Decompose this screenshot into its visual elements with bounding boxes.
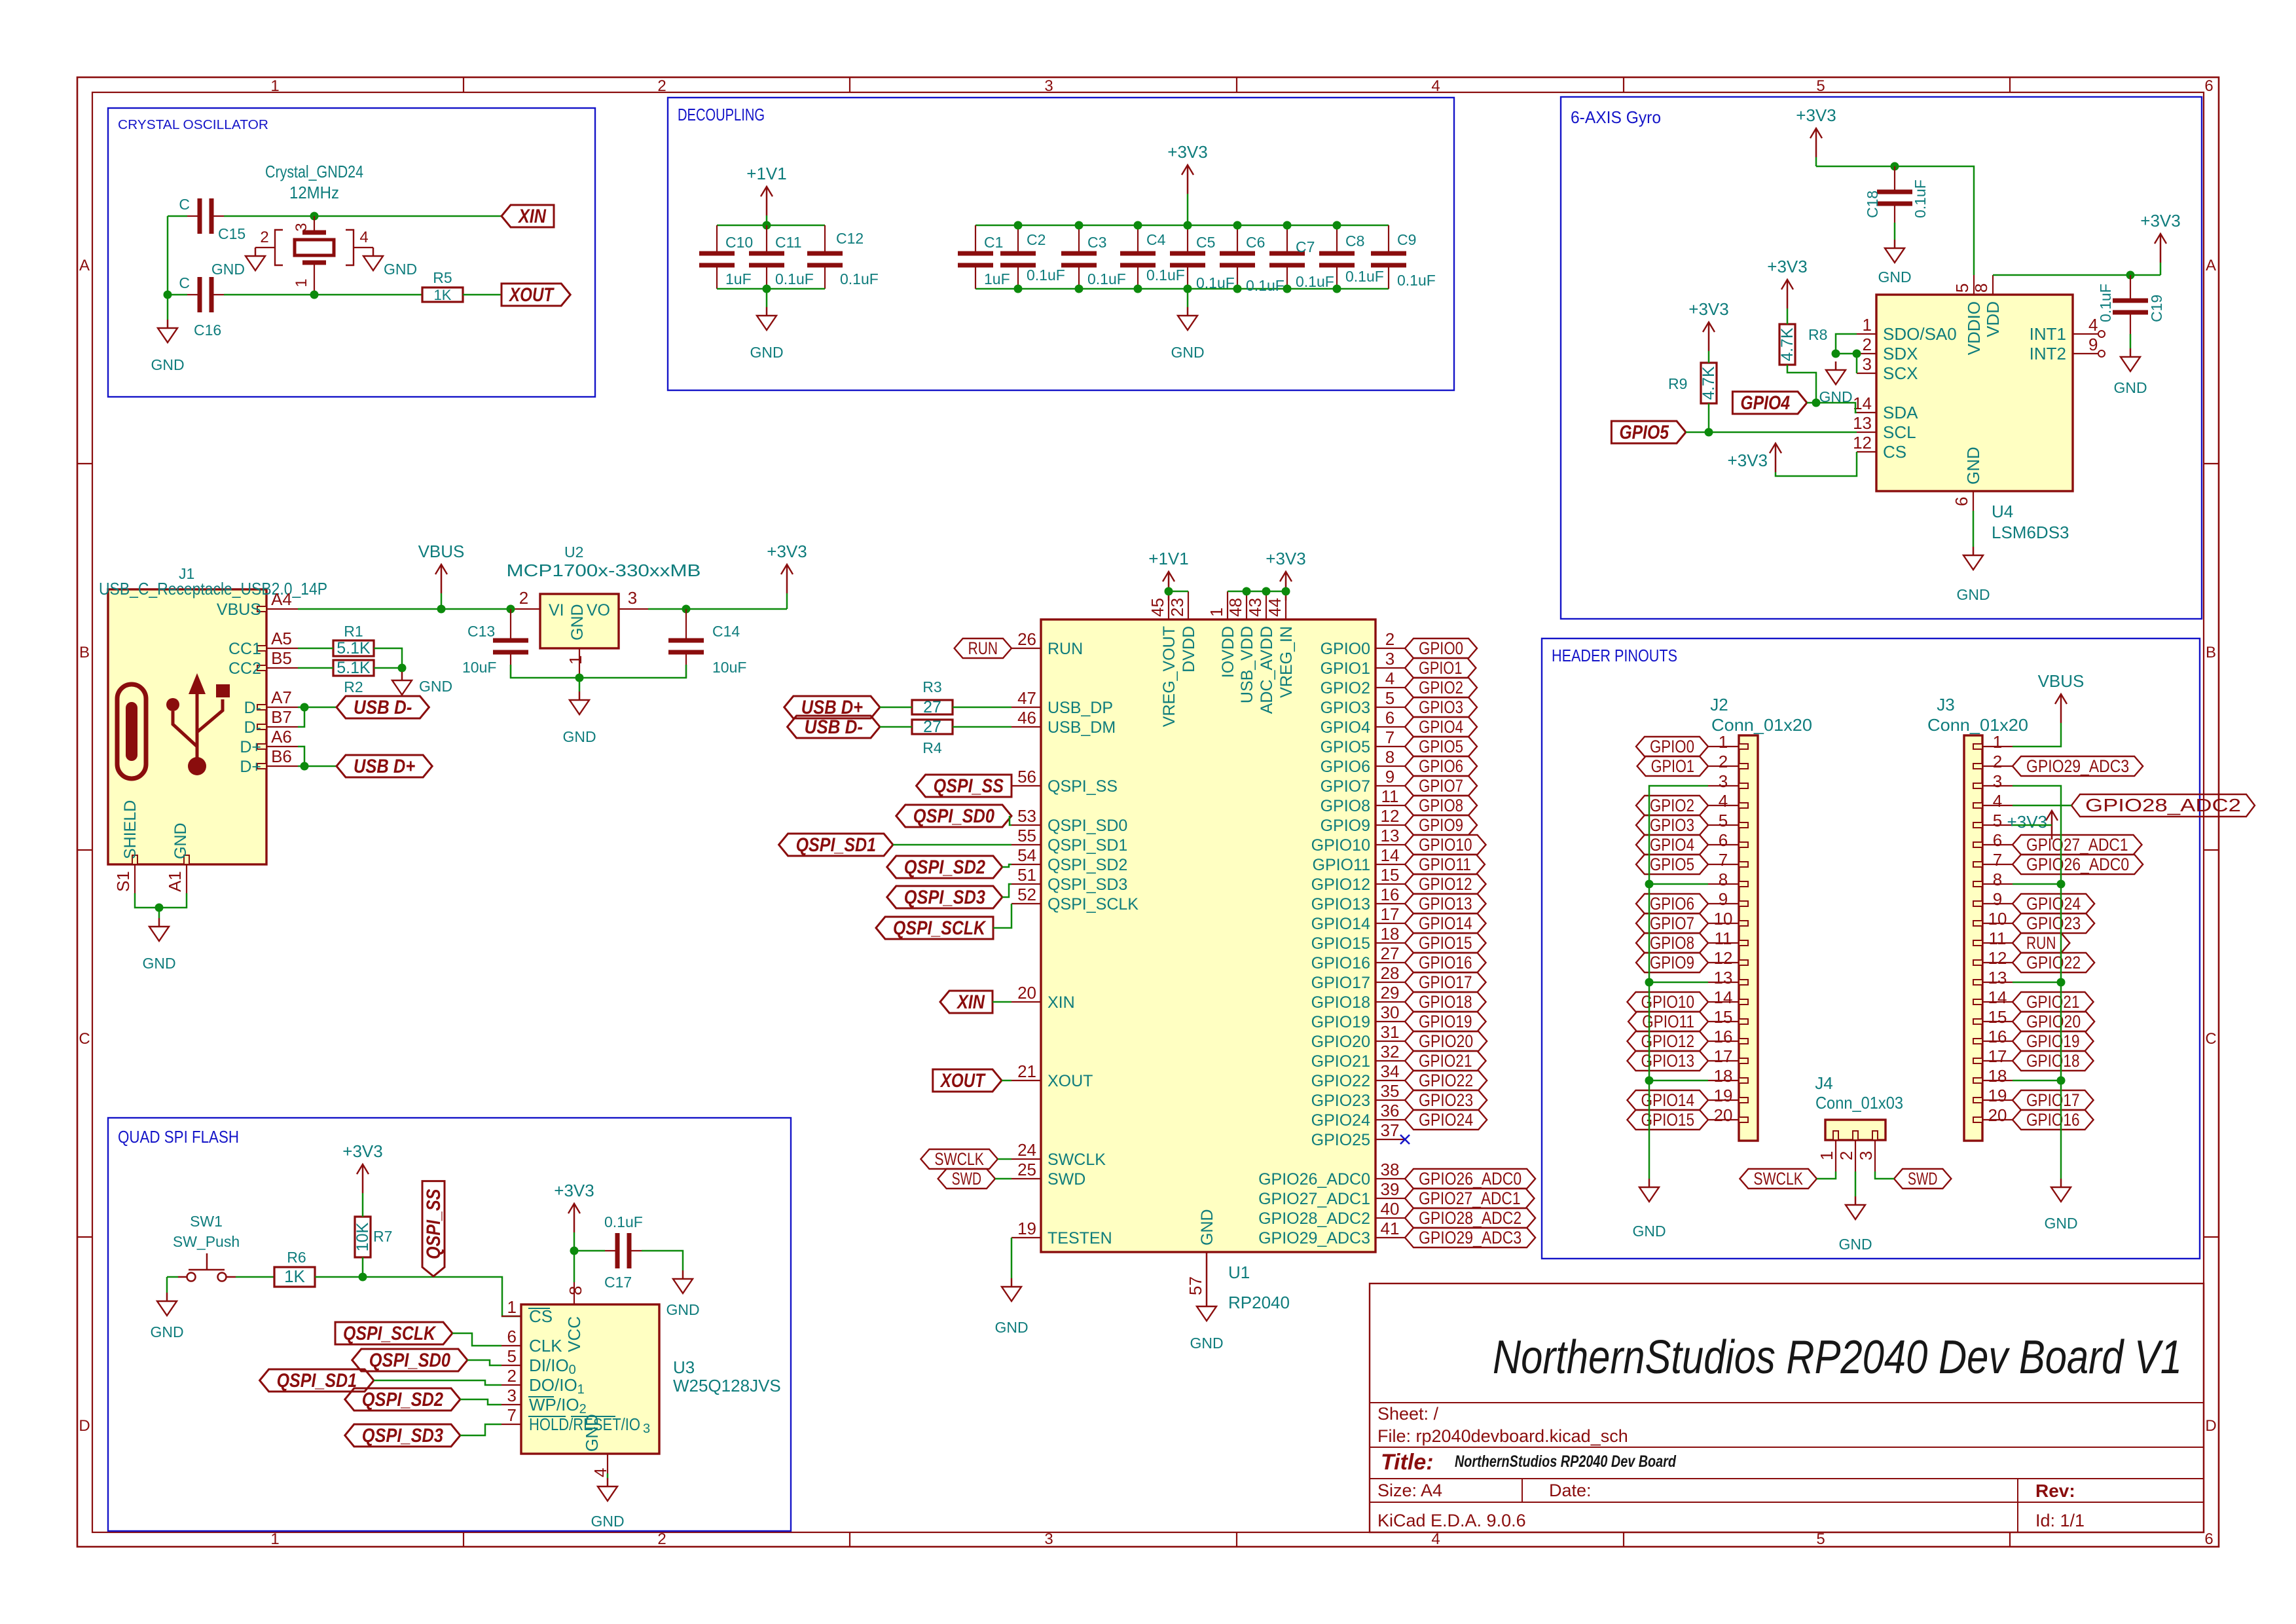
svg-text:XIN: XIN <box>1048 993 1075 1012</box>
net tag GPIO2 at J2 <box>1636 796 1708 815</box>
svg-text:GPIO29_ADC3: GPIO29_ADC3 <box>1419 1228 1522 1247</box>
global label USB D- at U1 <box>788 716 880 738</box>
svg-text:QSPI_SD0: QSPI_SD0 <box>1048 817 1127 835</box>
svg-text:GPIO1: GPIO1 <box>1419 658 1462 678</box>
svg-text:5: 5 <box>1719 811 1728 830</box>
svg-text:A1: A1 <box>165 871 185 892</box>
wire +1V1 pins <box>1169 591 1188 593</box>
net tag GPIO4 <box>1405 717 1477 737</box>
svg-text:GPIO21: GPIO21 <box>1419 1051 1472 1071</box>
svg-text:2: 2 <box>519 588 528 608</box>
svg-text:USB_DM: USB_DM <box>1048 718 1116 737</box>
svg-text:CC1: CC1 <box>228 640 261 658</box>
svg-text:WP/IO: WP/IO <box>529 1395 579 1414</box>
svg-text:GND: GND <box>1198 1209 1216 1246</box>
svg-text:C4: C4 <box>1146 231 1166 248</box>
svg-text:9: 9 <box>2088 335 2098 354</box>
svg-text:SWD: SWD <box>952 1169 981 1189</box>
svg-text:0.1uF: 0.1uF <box>775 270 814 287</box>
node J3 pin 13 junction <box>2057 978 2066 987</box>
svg-text:GPIO5: GPIO5 <box>1419 737 1463 756</box>
svg-text:QSPI_SD3: QSPI_SD3 <box>904 887 985 908</box>
svg-text:C9: C9 <box>1397 231 1416 248</box>
svg-text:Sheet: /: Sheet: / <box>1377 1404 1439 1424</box>
svg-text:2: 2 <box>657 77 666 95</box>
svg-text:0.1uF: 0.1uF <box>1397 272 1436 289</box>
power +3V3 gyro right <box>2160 263 2162 275</box>
svg-text:VI: VI <box>549 601 564 619</box>
svg-text:GND: GND <box>666 1301 699 1318</box>
capacitor C6 <box>1237 225 1238 253</box>
svg-text:GPIO18: GPIO18 <box>1419 992 1472 1012</box>
wire R1 R2 to gnd <box>374 648 402 672</box>
svg-text:GND: GND <box>582 1414 602 1452</box>
IC U1 RP2040 body <box>1041 619 1376 1252</box>
svg-text:19: 19 <box>1714 1086 1733 1105</box>
svg-text:Rev:: Rev: <box>2035 1481 2075 1501</box>
svg-text:1: 1 <box>1817 1151 1836 1160</box>
node D+ junction <box>301 762 309 771</box>
resistor R1 5.1K <box>333 640 374 656</box>
ground below C5 <box>1187 289 1189 307</box>
svg-text:4: 4 <box>1719 791 1728 811</box>
node J3 pin 8 junction <box>2057 880 2066 889</box>
wire QSPI_SD2 <box>1002 864 1011 867</box>
svg-text:GPIO25: GPIO25 <box>1311 1131 1370 1149</box>
wire J2 pin 18 gnd <box>1649 1080 1708 1082</box>
svg-text:24: 24 <box>1017 1140 1036 1160</box>
net tag GPIO5 <box>1405 737 1477 756</box>
svg-text:QSPI_SD2: QSPI_SD2 <box>362 1389 443 1411</box>
svg-text:GND: GND <box>1632 1223 1666 1240</box>
net tag GPIO13 <box>1405 894 1486 913</box>
wire J3 pin4 to GPIO28_ADC2 <box>2013 805 2071 807</box>
net tag GPIO16 at J3 <box>2013 1110 2094 1130</box>
svg-text:GPIO2: GPIO2 <box>1650 796 1694 815</box>
svg-text:MCP1700x-330xxMB: MCP1700x-330xxMB <box>507 561 701 580</box>
svg-text:8: 8 <box>1385 747 1394 767</box>
node D- junction <box>301 703 309 712</box>
svg-text:NorthernStudios RP2040 Dev Boa: NorthernStudios RP2040 Dev Board <box>1455 1452 1677 1471</box>
svg-text:CRYSTAL OSCILLATOR: CRYSTAL OSCILLATOR <box>118 118 268 132</box>
wire +3V3 pins <box>1228 591 1286 593</box>
crystal pin2 wire and ground <box>255 247 275 248</box>
wire R6 to CS net <box>315 1277 521 1316</box>
svg-text:52: 52 <box>1017 885 1036 904</box>
node R9 SCL junction <box>1705 428 1713 437</box>
node GPIO4 junction <box>1812 399 1821 407</box>
svg-text:1: 1 <box>507 1297 517 1317</box>
svg-text:3: 3 <box>1856 1151 1876 1160</box>
J3 pins <box>1973 744 1982 749</box>
svg-text:0.1uF: 0.1uF <box>1087 270 1126 287</box>
svg-text:GPIO8: GPIO8 <box>1419 796 1463 815</box>
svg-text:GPIO13: GPIO13 <box>1311 895 1370 913</box>
global label USB D+ at U1 <box>784 696 880 718</box>
wire QSPI_SD1 to DO <box>374 1380 501 1385</box>
power +3V3 above R8 <box>1787 308 1789 324</box>
svg-text:QSPI_SD3: QSPI_SD3 <box>1048 876 1127 894</box>
svg-text:+3V3: +3V3 <box>1167 142 1207 162</box>
svg-text:A6: A6 <box>271 727 292 747</box>
ground below J1 <box>158 918 160 927</box>
svg-text:QSPI_SD1: QSPI_SD1 <box>1048 836 1127 855</box>
svg-text:GPIO23: GPIO23 <box>2026 913 2081 933</box>
wire J2 ground bus <box>1649 786 1708 1179</box>
svg-text:1: 1 <box>270 77 279 95</box>
node VCC junction <box>570 1247 579 1255</box>
svg-text:GPIO11: GPIO11 <box>1419 855 1471 874</box>
U1 bottom pin GND 57 <box>1206 1252 1208 1298</box>
svg-text:GND: GND <box>1190 1335 1223 1352</box>
svg-text:5: 5 <box>507 1346 517 1366</box>
svg-text:13: 13 <box>1714 968 1733 987</box>
wire shield to gnd <box>135 893 187 908</box>
svg-text:11: 11 <box>1381 786 1399 806</box>
wire SWD <box>995 1178 1011 1180</box>
svg-text:VREG_IN: VREG_IN <box>1277 626 1296 698</box>
svg-text:GND: GND <box>591 1513 624 1530</box>
svg-text:GPIO19: GPIO19 <box>1419 1012 1472 1031</box>
wire J3 pin1 to VBUS <box>2013 723 2061 747</box>
svg-text:GPIO19: GPIO19 <box>1311 1013 1370 1031</box>
capacitor C14 10uF <box>685 609 687 640</box>
net tag GPIO24 at J3 <box>2013 894 2094 913</box>
svg-text:0.1uF: 0.1uF <box>2097 284 2114 322</box>
svg-text:20: 20 <box>1714 1105 1733 1125</box>
capacitor C18 <box>1894 166 1895 192</box>
svg-text:+1V1: +1V1 <box>1148 549 1188 568</box>
power +3V3 at J3 pin5 <box>2051 811 2053 840</box>
svg-text:C14: C14 <box>712 623 740 640</box>
svg-text:15: 15 <box>1988 1007 2007 1027</box>
capacitor C10 <box>716 225 718 253</box>
svg-text:GND: GND <box>1956 586 1990 603</box>
svg-text:GPIO20: GPIO20 <box>1419 1031 1473 1051</box>
node C4 top junction <box>1134 221 1142 230</box>
USB icon <box>117 684 146 779</box>
svg-text:D: D <box>2205 1417 2216 1435</box>
node C5 top junction <box>1184 221 1192 230</box>
svg-text:VCC: VCC <box>564 1316 584 1352</box>
svg-text:SW1: SW1 <box>190 1213 223 1230</box>
ground below R1 R2 <box>401 672 403 680</box>
svg-text:VO: VO <box>587 601 610 619</box>
wire QSPI_SCLK to CLK <box>452 1333 501 1346</box>
net tag GPIO2 <box>1405 678 1477 697</box>
node left GND junction <box>763 285 771 293</box>
svg-text:SCX: SCX <box>1883 363 1918 383</box>
svg-text:10uF: 10uF <box>712 659 746 676</box>
crystal pin4 wire and ground <box>354 247 373 248</box>
svg-text:35: 35 <box>1381 1081 1400 1101</box>
net tag GPIO16 <box>1405 953 1486 972</box>
svg-text:J3: J3 <box>1937 695 1954 714</box>
svg-text:+3V3: +3V3 <box>2007 812 2047 832</box>
svg-text:SDX: SDX <box>1883 344 1918 363</box>
node crystal XIN junction <box>310 212 319 221</box>
net tag GPIO21 <box>1405 1051 1486 1071</box>
svg-text:GPIO14: GPIO14 <box>1311 915 1370 933</box>
ground below J4 <box>1855 1196 1857 1205</box>
wire J4 pin2 gnd <box>1855 1172 1857 1196</box>
svg-text:XIN: XIN <box>956 991 985 1013</box>
U3 GND pin 4 <box>607 1454 608 1473</box>
section box DECOUPLING <box>668 98 1454 390</box>
svg-text:U2: U2 <box>564 544 583 561</box>
svg-text:0.1uF: 0.1uF <box>1345 268 1384 285</box>
svg-text:GPIO9: GPIO9 <box>1321 817 1370 835</box>
svg-text:12: 12 <box>1714 948 1733 968</box>
svg-text:GPIO9: GPIO9 <box>1419 815 1463 835</box>
wire QSPI_SD3 <box>1002 884 1011 897</box>
svg-text:GPIO3: GPIO3 <box>1419 697 1463 717</box>
wire D- pair <box>298 707 304 727</box>
node C2 bottom junction <box>1014 285 1023 293</box>
svg-text:CS: CS <box>529 1306 553 1326</box>
svg-text:12: 12 <box>1853 433 1872 452</box>
net tag GPIO22 <box>1405 1071 1487 1090</box>
svg-text:C3: C3 <box>1087 234 1106 251</box>
svg-text:GPIO2: GPIO2 <box>1419 678 1463 697</box>
svg-text:14: 14 <box>1714 987 1733 1007</box>
capacitor C11 <box>766 225 767 253</box>
svg-text:+3V3: +3V3 <box>342 1141 382 1161</box>
U2 pin 1 <box>579 648 580 678</box>
svg-text:B: B <box>79 644 90 661</box>
J2 pins <box>1739 744 1748 749</box>
node C3 bottom junction <box>1075 285 1084 293</box>
svg-text:37: 37 <box>1381 1120 1400 1140</box>
decoupling left top bus wire <box>717 225 825 227</box>
svg-text:U3: U3 <box>673 1357 695 1377</box>
node USB_VDD junctions <box>1243 587 1251 596</box>
svg-text:SHIELD: SHIELD <box>121 800 139 859</box>
svg-text:C13: C13 <box>467 623 495 640</box>
svg-text:GPIO17: GPIO17 <box>1419 972 1472 992</box>
svg-text:GND: GND <box>2044 1215 2077 1232</box>
global label XOUT <box>501 284 570 306</box>
svg-text:0.1uF: 0.1uF <box>604 1213 643 1230</box>
wire VDD to +3V3 right <box>1993 274 2160 276</box>
svg-text:57: 57 <box>1186 1276 1205 1295</box>
node C14 junction <box>682 605 691 614</box>
svg-text:QSPI_SD1: QSPI_SD1 <box>796 834 876 856</box>
svg-text:XIN: XIN <box>517 206 547 227</box>
svg-text:DVDD: DVDD <box>1180 626 1198 673</box>
capacitor C2 <box>1017 225 1019 253</box>
svg-text:B6: B6 <box>271 747 292 766</box>
global label QSPI_SS <box>917 775 1011 797</box>
svg-text:GPIO6: GPIO6 <box>1419 756 1463 776</box>
svg-text:C: C <box>79 1030 90 1048</box>
node shield junction <box>155 904 164 912</box>
svg-text:C8: C8 <box>1345 232 1364 249</box>
svg-text:+3V3: +3V3 <box>2140 211 2180 231</box>
node C2 top junction <box>1014 221 1023 230</box>
svg-text:12MHz: 12MHz <box>289 183 339 202</box>
svg-text:GPIO5: GPIO5 <box>1321 738 1370 756</box>
svg-text:R3: R3 <box>922 678 941 695</box>
svg-text:IOVDD: IOVDD <box>1219 626 1237 678</box>
capacitor C5 <box>1187 225 1188 253</box>
net tag GPIO18 <box>1405 992 1486 1012</box>
svg-text:INT2: INT2 <box>2030 344 2066 363</box>
global label QSPI_SCLK <box>876 917 993 939</box>
net tag GPIO8 <box>1405 796 1477 815</box>
resistor R3 27 <box>912 700 953 714</box>
svg-text:0.1uF: 0.1uF <box>840 270 879 287</box>
wire TESTEN to gnd <box>1011 1238 1013 1278</box>
capacitor C3 <box>1078 225 1080 253</box>
svg-text:GPIO15: GPIO15 <box>1419 933 1472 953</box>
wire R4 wires <box>880 726 912 728</box>
wire C15 left <box>168 215 187 217</box>
power +3V3 at CS <box>1775 443 1777 472</box>
svg-text:A: A <box>79 257 90 274</box>
U2 pin 2 <box>511 608 540 610</box>
svg-text:C5: C5 <box>1196 234 1215 251</box>
power +3V3 above R7 <box>362 1193 364 1217</box>
svg-text:GND: GND <box>419 678 452 695</box>
net tag GPIO9 at J2 <box>1636 953 1708 972</box>
svg-text:18: 18 <box>1381 924 1400 944</box>
node R2 junction <box>398 664 407 673</box>
node VBUS junction <box>437 605 446 614</box>
svg-text:3: 3 <box>1719 771 1728 791</box>
svg-text:6: 6 <box>2204 77 2213 95</box>
svg-text:SCL: SCL <box>1883 422 1916 442</box>
svg-text:XOUT: XOUT <box>939 1070 986 1092</box>
svg-text:GPIO21: GPIO21 <box>1311 1052 1370 1071</box>
svg-text:VDDIO: VDDIO <box>1964 301 1984 355</box>
svg-text:43: 43 <box>1245 598 1265 617</box>
svg-text:54: 54 <box>1017 845 1036 865</box>
svg-text:USB_VDD: USB_VDD <box>1238 626 1256 703</box>
svg-text:D+: D+ <box>240 758 261 776</box>
svg-text:GPIO26_ADC0: GPIO26_ADC0 <box>1258 1170 1370 1189</box>
svg-text:GPIO6: GPIO6 <box>1650 894 1694 913</box>
wire C16 to R5 <box>224 294 422 296</box>
net tag GPIO1 <box>1405 658 1476 678</box>
svg-text:GPIO29_ADC3: GPIO29_ADC3 <box>2026 756 2129 776</box>
svg-text:1uF: 1uF <box>725 270 752 287</box>
net tag GPIO11 <box>1405 855 1485 874</box>
section box CRYSTAL OSCILLATOR <box>108 108 595 397</box>
net tag RUN at U1 <box>955 638 1011 658</box>
net tag GPIO27_ADC1 at J3 <box>2013 835 2142 855</box>
svg-text:13: 13 <box>1988 968 2007 987</box>
svg-text:GPIO24: GPIO24 <box>1311 1111 1370 1130</box>
capacitor C16 <box>187 294 200 295</box>
node C8 top junction <box>1333 221 1341 230</box>
section box HEADER PINOUTS <box>1542 638 2200 1259</box>
svg-text:GPIO10: GPIO10 <box>1311 836 1370 855</box>
svg-text:2: 2 <box>1836 1151 1856 1160</box>
resistor R8 4.7K <box>1779 324 1795 365</box>
svg-text:26: 26 <box>1017 629 1036 649</box>
svg-text:GPIO12: GPIO12 <box>1419 874 1472 894</box>
capacitor C8 <box>1336 225 1338 253</box>
svg-text:D-: D- <box>244 699 261 717</box>
ground below J2 bus <box>1649 1179 1650 1187</box>
global label QSPI_SD0 <box>896 805 1011 827</box>
title block <box>1370 1283 2204 1532</box>
svg-text:GND: GND <box>1838 1236 1872 1253</box>
svg-text:SDA: SDA <box>1883 403 1918 422</box>
net tag GPIO0 <box>1405 638 1477 658</box>
global label USB D- <box>337 696 429 718</box>
svg-text:1: 1 <box>1863 315 1872 335</box>
net tag GPIO6 <box>1405 756 1477 776</box>
ground below U1 <box>1206 1298 1208 1306</box>
svg-text:16: 16 <box>1381 885 1400 904</box>
wire SDX to SCX <box>1856 354 1858 373</box>
svg-text:2: 2 <box>1719 752 1728 771</box>
power +3V3 usb <box>786 593 788 609</box>
svg-text:3: 3 <box>643 1422 650 1436</box>
svg-text:GPIO5: GPIO5 <box>1650 855 1694 874</box>
svg-text:27: 27 <box>923 698 941 716</box>
svg-text:11: 11 <box>1715 929 1732 948</box>
svg-text:5: 5 <box>1993 811 2002 830</box>
net tag GPIO19 <box>1405 1012 1486 1031</box>
svg-text:GPIO4: GPIO4 <box>1740 392 1790 414</box>
net tag GPIO29_ADC3 at J3 <box>2013 756 2143 776</box>
svg-text:GPIO22: GPIO22 <box>1419 1071 1473 1090</box>
svg-text:R6: R6 <box>287 1249 306 1266</box>
wire SDO SDX link <box>1836 334 1857 354</box>
svg-text:31: 31 <box>1381 1022 1400 1042</box>
svg-text:4: 4 <box>1431 77 1440 95</box>
net tag GPIO13 at J2 <box>1627 1051 1708 1071</box>
svg-text:GPIO27_ADC1: GPIO27_ADC1 <box>2026 835 2128 855</box>
svg-text:GPIO21: GPIO21 <box>2026 992 2080 1012</box>
svg-text:J2: J2 <box>1710 695 1728 714</box>
wire C16 left <box>168 294 187 296</box>
net tag GPIO28_ADC2 at J3 <box>2071 794 2255 817</box>
wire J4 pin1 to SWCLK <box>1817 1172 1836 1179</box>
svg-text:U4: U4 <box>1992 502 2013 521</box>
svg-text:19: 19 <box>1017 1219 1036 1238</box>
wire J3 pin 13 gnd <box>2013 982 2061 984</box>
net tag GPIO15 <box>1405 933 1486 953</box>
svg-text:1: 1 <box>270 1530 279 1548</box>
svg-text:23: 23 <box>1167 598 1187 617</box>
wire J3 ground bus <box>2013 786 2061 1179</box>
power +1V1 at U1 <box>1168 572 1170 600</box>
svg-text:Date:: Date: <box>1549 1481 1592 1500</box>
svg-text:17: 17 <box>1988 1046 2007 1066</box>
wire CC1 to R1 <box>298 648 333 650</box>
wire D+ pair <box>298 747 304 766</box>
svg-text:53: 53 <box>1017 806 1036 826</box>
wire R3 wires <box>880 707 912 709</box>
svg-text:36: 36 <box>1381 1101 1400 1120</box>
wire J2 pin 8 gnd <box>1649 883 1708 885</box>
svg-text:5: 5 <box>1385 688 1394 708</box>
svg-text:44: 44 <box>1265 598 1285 617</box>
capacitor C7 <box>1286 225 1288 253</box>
ground right of C17 <box>682 1270 684 1279</box>
svg-text:USB D-: USB D- <box>354 697 412 718</box>
wire +3V3 to CS <box>1776 452 1857 476</box>
svg-text:C6: C6 <box>1246 234 1265 251</box>
svg-text:11: 11 <box>1989 929 2007 948</box>
svg-text:RUN: RUN <box>1048 640 1083 658</box>
node U2 GND junction <box>575 674 584 682</box>
svg-text:GND: GND <box>211 261 245 278</box>
